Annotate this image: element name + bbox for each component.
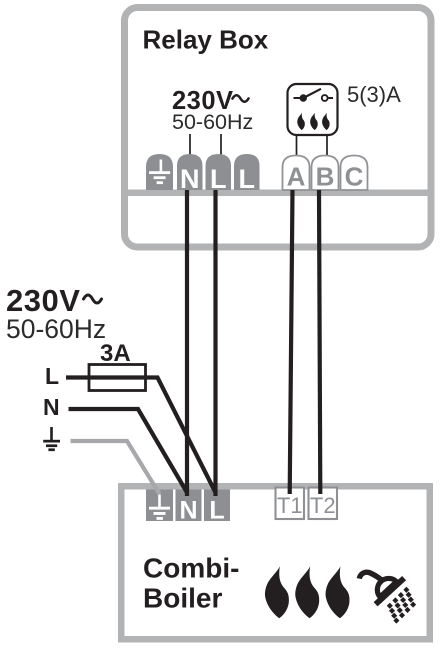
wire: relay N to combi N (black vertical) [185, 190, 189, 496]
svg-text:Boiler: Boiler [143, 583, 222, 614]
relay box enclosure [125, 8, 432, 248]
svg-text:T1: T1 [277, 493, 303, 518]
combi terminal earth (dark gray) [146, 490, 173, 522]
earth symbol (white, combi terminal) [149, 495, 170, 520]
svg-text:L: L [210, 164, 227, 194]
wire: live L from mains through fuse to combi L (black) [66, 378, 216, 493]
relay contact icon box U1 [288, 84, 338, 135]
svg-text:A: A [287, 162, 306, 192]
shower faceplate [376, 578, 405, 604]
relay terminal C [341, 156, 368, 192]
relay terminal N [177, 154, 203, 194]
svg-text:T2: T2 [310, 493, 336, 518]
svg-text:50-60Hz: 50-60Hz [6, 314, 106, 344]
wire: earth from mains to combi earth (gray) [71, 441, 160, 494]
wire: lead from relay icon to terminal B [326, 136, 328, 157]
svg-text:C: C [345, 162, 364, 192]
wire: lead from 50-60Hz to terminal N [189, 134, 191, 156]
svg-text:50-60Hz: 50-60Hz [172, 110, 253, 134]
flame icons (combi, large x3) [265, 566, 350, 618]
svg-text:N: N [43, 394, 60, 420]
relay terminal A [283, 156, 310, 192]
earth symbol (mains, black) [43, 427, 60, 451]
spray dots [387, 587, 416, 624]
label 230V~ (relay box) [172, 87, 249, 115]
earth symbol (white, relay terminal) [149, 160, 170, 185]
wire: relay L to combi L (black vertical) [213, 190, 217, 496]
fuse F1 3A [89, 365, 146, 391]
svg-text:5(3)A: 5(3)A [347, 82, 401, 107]
combi-boiler enclosure [121, 486, 430, 639]
relay terminal B [312, 156, 339, 192]
svg-text:N: N [179, 497, 197, 525]
combi terminal N [176, 490, 202, 525]
wire: lead from relay icon to terminal A [296, 136, 298, 157]
combi terminal L [204, 490, 230, 525]
shower head icon [359, 572, 416, 623]
shower pipe [359, 572, 382, 581]
svg-text:3A: 3A [100, 340, 131, 367]
svg-text:L: L [209, 497, 224, 525]
svg-text:L: L [239, 164, 256, 194]
switch contact symbol [294, 89, 334, 102]
wire: relay B to combi T2 (black) [319, 190, 320, 494]
svg-text:B: B [316, 162, 335, 192]
svg-text:230V: 230V [6, 283, 80, 318]
svg-text:Relay Box: Relay Box [143, 25, 269, 55]
flame icons (relay, small x3) [297, 113, 329, 131]
label Combi-Boiler [143, 553, 239, 614]
shower head dome [377, 578, 396, 597]
relay terminal L2 [234, 154, 260, 194]
svg-text:Combi-: Combi- [143, 553, 239, 584]
relay terminal earth (gray) [146, 154, 173, 190]
wire: lead from 50-60Hz to terminal L [220, 134, 222, 156]
label 230V~ (mains) [6, 283, 102, 318]
wire: neutral N from mains to combi N (black) [69, 409, 188, 493]
svg-text:N: N [180, 164, 200, 194]
svg-text:L: L [45, 363, 59, 389]
wire: relay A to combi T1 (black) [290, 190, 293, 494]
relay terminal L1 [206, 154, 232, 194]
combi terminal T1 [276, 488, 305, 520]
combi terminal T2 [309, 488, 338, 520]
relay box terminal rail divider [125, 190, 431, 197]
